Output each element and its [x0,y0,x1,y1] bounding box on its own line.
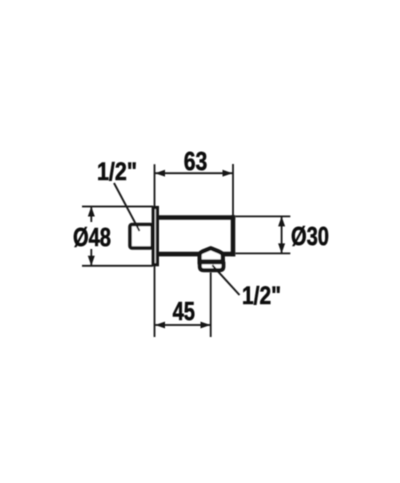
svg-text:63: 63 [184,146,208,176]
svg-text:1/2": 1/2" [242,282,281,310]
svg-text:Ø30: Ø30 [291,221,329,251]
svg-text:Ø48: Ø48 [73,222,111,252]
svg-text:1/2": 1/2" [97,158,137,186]
svg-text:45: 45 [173,296,195,326]
